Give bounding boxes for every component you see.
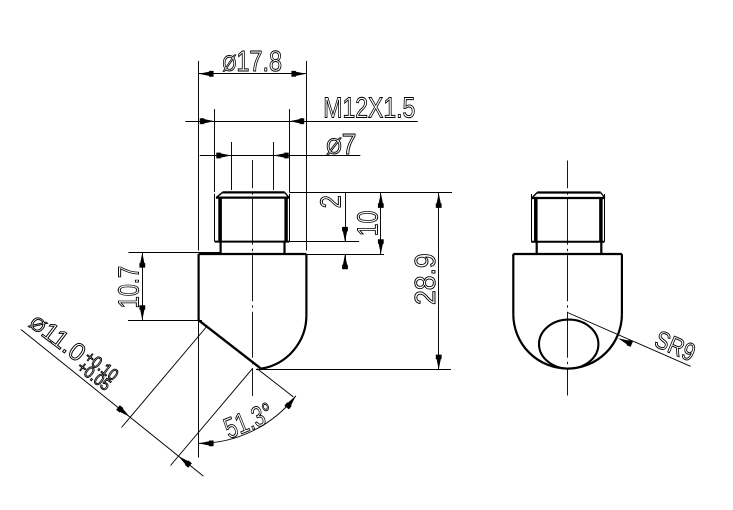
svg-text:Ø7: Ø7	[326, 129, 356, 161]
svg-text:10.7: 10.7	[114, 266, 146, 309]
svg-text:Ø17.8: Ø17.8	[223, 46, 283, 78]
svg-text:28.9: 28.9	[410, 253, 442, 305]
svg-text:M12X1.5: M12X1.5	[323, 93, 415, 125]
svg-text:10: 10	[353, 211, 385, 237]
svg-text:2: 2	[316, 195, 348, 208]
